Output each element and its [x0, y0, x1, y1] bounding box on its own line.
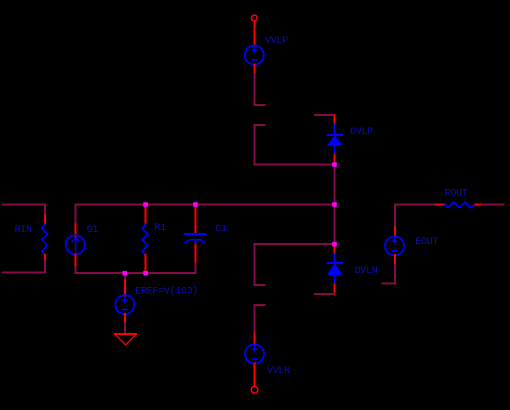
- diode DVLP: [328, 125, 342, 156]
- lead VVLP bottom: [253, 64, 255, 74]
- node junction mid rail: [332, 202, 337, 207]
- ground: [115, 334, 136, 345]
- label EOUT: [415, 237, 438, 248]
- lead RIN bottom: [44, 255, 46, 261]
- label DVLP: [350, 127, 373, 138]
- svg-text:ROUT: ROUT: [445, 189, 468, 200]
- capacitor C1: [185, 234, 205, 245]
- svg-text:EOUT: EOUT: [415, 237, 438, 248]
- node junction above DVLN: [332, 242, 337, 247]
- lead RIN top: [44, 216, 46, 225]
- wire bottom rail (G1 to C1): [76, 272, 196, 274]
- wire EOUT bottom stub: [382, 265, 395, 284]
- label ROUT: [445, 189, 468, 200]
- wire lower switch lower L: [254, 305, 264, 334]
- label RIN: [15, 225, 32, 236]
- lead DVLN top: [334, 246, 336, 254]
- wire G1 top stem: [75, 205, 77, 225]
- lead EOUT bottom: [394, 255, 396, 264]
- label C1: [215, 224, 227, 235]
- svg-text:EREF=V(103): EREF=V(103): [135, 286, 198, 298]
- lead ROUT right: [476, 204, 483, 206]
- voltage source EREF: [115, 295, 134, 314]
- wire terminal to VVLP: [253, 21, 255, 45]
- resistor ROUT: [445, 202, 475, 208]
- wire VVLP to upper stub corner: [254, 75, 264, 105]
- voltage source EOUT: [385, 236, 404, 255]
- lead G1 bottom: [75, 255, 77, 267]
- terminal top (VVLP plus pin): [251, 15, 257, 21]
- lead C1 bottom: [195, 245, 197, 265]
- node junction EREF tap: [123, 271, 128, 276]
- terminal bottom (VVLN minus pin): [251, 387, 258, 394]
- diode DVLN: [328, 254, 342, 284]
- svg-text:VVLP: VVLP: [265, 36, 288, 47]
- svg-text:VVLN: VVLN: [267, 366, 290, 377]
- wire EREF stem: [124, 273, 126, 281]
- wire output rail left of ROUT: [395, 204, 436, 206]
- wire upper switch lower L: [254, 125, 334, 164]
- svg-text:DVLP: DVLP: [350, 127, 373, 138]
- label R1: [154, 223, 166, 234]
- wire EOUT top stem: [394, 205, 396, 228]
- wire top rail (G1 to mid column): [76, 204, 335, 206]
- lead C1 top: [195, 207, 197, 234]
- svg-text:G1: G1: [87, 225, 99, 236]
- lead ROUT left: [436, 204, 445, 206]
- wire C1 bottom stem: [195, 264, 197, 273]
- node junction R1 top: [143, 202, 148, 207]
- svg-text:C1: C1: [215, 224, 227, 235]
- wire EREF to ground: [124, 323, 126, 332]
- wire input lead bottom left: [3, 261, 45, 273]
- label G1: [87, 225, 99, 236]
- wire mid column (DVLP node to DVLN node): [334, 166, 336, 243]
- lead DVLN bottom: [334, 284, 336, 294]
- voltage source VVLN: [245, 345, 264, 364]
- lead EOUT top: [394, 227, 396, 236]
- current source G1: [66, 235, 85, 254]
- svg-text:R1: R1: [154, 223, 166, 234]
- lead R1 top: [145, 207, 147, 225]
- wire output rail right of ROUT: [483, 204, 504, 206]
- voltage source VVLP: [245, 46, 264, 65]
- label DVLN: [355, 266, 378, 277]
- svg-text:DVLN: DVLN: [355, 266, 378, 277]
- lead G1 top: [75, 224, 77, 236]
- lead R1 bottom: [145, 255, 147, 271]
- lead EREF top: [124, 281, 126, 295]
- lead DVLP top: [334, 115, 336, 124]
- wire lower switch upper L: [254, 244, 334, 285]
- lead VVLN top: [253, 334, 255, 345]
- node junction below DVLP: [332, 162, 337, 167]
- wire G1 bottom stem: [75, 267, 77, 273]
- resistor R1: [142, 224, 148, 255]
- resistor RIN: [42, 224, 48, 255]
- wire DVLN cathode stub: [315, 293, 335, 295]
- svg-text:RIN: RIN: [15, 225, 32, 236]
- wire input lead top left: [3, 204, 45, 215]
- label VVLP: [265, 36, 288, 47]
- node junction C1 top: [193, 202, 198, 207]
- label VVLN: [267, 366, 290, 377]
- lead DVLP bottom: [334, 155, 336, 162]
- label EREF=V(103): [135, 286, 198, 298]
- node junction R1 bottom: [143, 271, 148, 276]
- wire VVLN to bottom terminal: [254, 363, 256, 386]
- wire DVLP anode stub: [315, 114, 335, 116]
- lead EREF bottom: [124, 314, 126, 324]
